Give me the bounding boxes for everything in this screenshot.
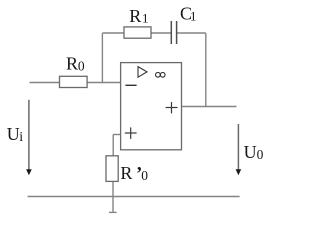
svg-text:1: 1 [142,10,149,25]
svg-text:R: R [66,53,78,73]
svg-text:0: 0 [141,168,148,183]
svg-text:R: R [129,6,141,26]
svg-text:U: U [7,124,20,144]
svg-text:U: U [244,142,257,162]
svg-text:R: R [120,163,132,183]
svg-text:1: 1 [190,8,197,23]
svg-text:i: i [19,130,23,145]
svg-text:0: 0 [78,59,85,74]
svg-text:0: 0 [257,147,264,162]
